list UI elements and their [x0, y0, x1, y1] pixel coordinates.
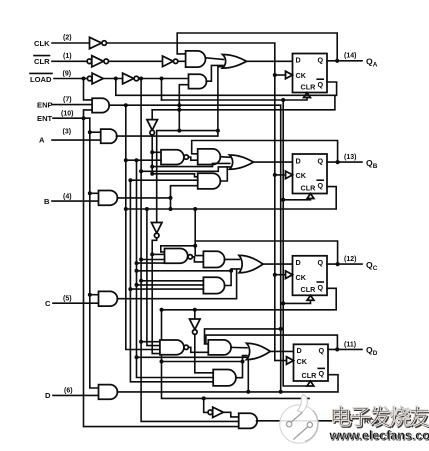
wire ENT rise to enable AND bottom input — [84, 110, 93, 118]
wire OR1 output to FF1 D — [246, 60, 293, 62]
node junction T chain end on line1 — [177, 129, 181, 133]
svg-text:(11): (11) — [344, 341, 356, 348]
wire A gate output to jog — [116, 67, 222, 136]
wire clear bus vertical — [283, 100, 310, 386]
svg-text:(2): (2) — [63, 35, 72, 42]
svg-text:C: C — [45, 299, 51, 308]
wire CLK input line — [52, 42, 89, 44]
wire RCO output line — [257, 420, 353, 422]
node ENT input label — [37, 110, 73, 123]
wire 3AND-B in1 line — [152, 174, 198, 177]
wire OR4 output to FF4 D — [270, 350, 294, 352]
node junction QB — [336, 160, 340, 164]
node junction x136.5 LC1 — [135, 269, 139, 273]
node junction x136.5 NAND-C — [135, 261, 139, 265]
svg-text:(12): (12) — [344, 256, 356, 263]
inverter U5 CLK buffer — [90, 37, 107, 48]
and-gate G5 stage B upper — [198, 149, 221, 165]
svg-text:CK: CK — [296, 171, 307, 180]
wire LD2 from x161.5 joining OR4 bottom feed — [162, 361, 243, 363]
flip-flop U1 QA — [286, 54, 328, 98]
wire FF1 Q output — [327, 60, 362, 62]
wire LD1 from bus x136.5 to OR4 lower back — [137, 356, 248, 358]
node junction LOAD x161.5 — [160, 77, 164, 81]
svg-text:Q: Q — [318, 56, 324, 65]
nand-gate G4 stage B — [161, 150, 188, 165]
wire NAND-B in2 from bus — [126, 159, 161, 161]
wire C input line — [53, 302, 98, 304]
wire D out jog up to OR D — [247, 359, 249, 392]
svg-text:CK: CK — [296, 273, 307, 282]
wire C gate output to OR C jog — [117, 270, 236, 299]
wire FF3 CLR hook — [283, 300, 310, 303]
wire QC-fb riser up to wrapB — [194, 209, 196, 241]
wire CLR inverter to AND A1 — [178, 60, 186, 62]
svg-text:CLR: CLR — [301, 83, 317, 92]
wire FF1 CLR hook — [162, 98, 308, 101]
node junction line A on T bus — [279, 327, 283, 331]
svg-text:D: D — [297, 346, 302, 355]
inverter U12 down inverter stage D chain — [190, 319, 201, 334]
wire G6 output jog up to OR2 bottom — [220, 167, 230, 181]
wire lower x161.5 from wrapC to bottom line — [162, 310, 310, 399]
wire QC feedback branch to NAND-C — [161, 246, 195, 252]
node junction LOAD x141 — [139, 77, 143, 81]
and-gate G2 stage A count gate — [189, 74, 207, 88]
wire QA routed line y109.8 — [152, 96, 335, 110]
node junction line1 on A-out jog — [216, 129, 220, 133]
node junction QC riser on wrapB — [193, 207, 197, 211]
node junction T drop joins D-out line — [279, 390, 283, 394]
node junction bus x146.9 top — [145, 207, 149, 211]
and-gate G20 stage D lower 3-input — [213, 370, 236, 386]
svg-text:A: A — [39, 136, 45, 145]
wire 3AND-B in2 from bus x136.5 — [130, 179, 197, 181]
inverter U11 down inverter stage C chain — [151, 223, 162, 238]
wire QA drop into inverter chain — [151, 110, 153, 120]
node junction bus x125.8 top — [124, 103, 128, 107]
svg-text:www.elecfans.com: www.elecfans.com — [328, 428, 429, 443]
svg-text:CLR: CLR — [302, 371, 318, 380]
node junction x136.5 LD1 — [135, 355, 139, 359]
node junction bus x130.4 start — [124, 158, 128, 162]
nand-gate G14 stage C 3-input — [165, 249, 193, 264]
inverter U9 LOAD second inverter — [123, 73, 139, 84]
wire NAND-C in1 stub — [152, 253, 164, 255]
wire QA feedback top line — [177, 33, 337, 61]
wire FF2 Q output — [327, 161, 362, 163]
wire 3AND-C in1 from bus x141.1 — [141, 280, 203, 282]
node junction x136.5 3AND-C — [135, 283, 139, 287]
wire FF4 Q output — [328, 348, 362, 350]
svg-text:D: D — [373, 350, 378, 357]
wire G19 output to OR4 — [231, 346, 247, 348]
node junction QC fb branch — [193, 244, 197, 248]
svg-text:(5): (5) — [63, 295, 72, 302]
wire G20 output jog up to OR4 bottom — [236, 356, 247, 378]
svg-text:CLR: CLR — [301, 183, 317, 192]
wire FF1 Qbar wraparound — [116, 79, 337, 96]
and-gate G16 stage C lower 3-input — [203, 277, 224, 293]
node junction ENT x83.5 — [82, 116, 86, 120]
flip-flop U2 QB — [286, 154, 328, 199]
wire QB feedback line — [192, 141, 338, 162]
node junction CLR bus top — [281, 98, 285, 102]
svg-text:C: C — [373, 265, 378, 272]
node junction x141.1 L2 — [139, 169, 143, 173]
wire C gate top input from x89.8 — [90, 294, 99, 296]
and-gate G1 stage A keep gate — [186, 51, 206, 67]
node junction chain NAND-B — [150, 150, 154, 154]
wire bus x146.9 from wrapB down to NAND-D — [147, 209, 160, 346]
svg-text:A: A — [373, 62, 378, 69]
wire LOAD long vertical x83.5 to RCO — [84, 118, 239, 426]
node junction CLR bus FF3 — [281, 301, 285, 305]
wire CK stub FF4 — [275, 360, 285, 362]
node junction B-out on riser — [169, 196, 173, 200]
wire stage D upper line A to T bus — [205, 329, 281, 344]
wire CLR line to second inverter — [109, 60, 164, 62]
wire 3AND-B in3 from wrapB riser — [171, 186, 198, 209]
node output RCO label — [349, 415, 380, 426]
and-gate G13 D load gate — [99, 385, 118, 400]
wire T bus riser to G2 bottom input — [179, 85, 188, 106]
and-gate G9 enable ENP/ENT — [92, 98, 109, 112]
svg-text:ENP: ENP — [37, 100, 53, 109]
wire QD feedback line — [206, 335, 338, 349]
wire OR3 output to FF3 D — [263, 263, 293, 265]
wire D input line — [53, 394, 98, 396]
wire NAND-D output step to G19 — [188, 347, 208, 352]
svg-text:CLR: CLR — [301, 285, 317, 294]
svg-text:LOAD: LOAD — [30, 75, 52, 84]
wire LOAD input line — [54, 78, 88, 80]
node output QC label — [344, 256, 378, 272]
wire NAND-B in1 stub — [152, 151, 161, 153]
node junction clock FF2 — [273, 173, 277, 177]
and-gate G12 C load gate — [99, 291, 118, 306]
wire ENT input line — [53, 117, 90, 119]
wire L2 from x141.1 joining OR2 bottom feed — [141, 167, 227, 171]
wire D gate output merged with QD-bar wrap line — [117, 375, 338, 392]
svg-text:B: B — [373, 163, 378, 170]
wire bus x125.8 from T line down to NAND-D — [126, 105, 160, 349]
svg-text:Q: Q — [318, 80, 324, 89]
and-gate G19 stage D upper — [208, 340, 231, 355]
svg-text:(10): (10) — [61, 110, 73, 117]
svg-text:CK: CK — [296, 71, 307, 80]
wire T bus lower segment to 3AND-B top input — [178, 105, 180, 130]
wire enable T output line — [109, 104, 281, 106]
node junction riser top — [202, 396, 206, 400]
svg-text:电子发烧友: 电子发烧友 — [330, 405, 429, 430]
wire L1 from chain to OR2 mid — [152, 163, 230, 166]
node B input label — [44, 193, 72, 206]
wire OR2 output to FF2 D — [253, 161, 293, 163]
wire FF2 CLR hook — [283, 199, 310, 200]
wire LOAD line to AND A2 top input — [139, 78, 189, 80]
node D input label — [45, 388, 73, 401]
wire B gate output to OR B jog — [117, 197, 170, 199]
svg-text:D: D — [296, 56, 301, 65]
wire CLK to clock bus corner — [107, 43, 275, 361]
wire A input line — [52, 139, 101, 141]
wire CK stub FF1 — [275, 74, 285, 76]
node junction T bus crossing QA line — [177, 108, 181, 112]
svg-text:Q: Q — [318, 283, 324, 292]
wire G1 output to OR1 — [206, 58, 224, 60]
wire CK stub FF2 — [275, 174, 285, 176]
watermark logo circle — [280, 395, 318, 443]
node LOAD input label — [30, 71, 71, 85]
node junction LC1 on jog — [229, 269, 233, 273]
wire LOAD between inverters — [103, 78, 122, 80]
wire T bus drop on right x280.7 — [280, 105, 282, 392]
node junction wrapB riser — [169, 207, 173, 211]
svg-text:B: B — [44, 197, 50, 206]
inverter U7 CLR second inverter — [163, 56, 178, 67]
node junction clock FF1 — [273, 73, 277, 77]
wire G2 output jog up to OR1 bottom — [206, 65, 223, 81]
wire NAND-B output step to G5 — [188, 157, 197, 160]
node junction x161.5 LD2 — [160, 360, 164, 364]
node junction x89.8 B stub — [88, 191, 92, 195]
or-gate G3 stage A — [223, 55, 247, 69]
flip-flop U3 QC — [286, 256, 328, 300]
wire NAND-D in1 stub — [141, 341, 160, 343]
wire wrapC drop to inverter chain — [194, 310, 196, 319]
inverter U8 LOAD first inverter — [87, 73, 103, 84]
node junction chain at NAND-C — [150, 252, 154, 256]
node junction QC — [336, 262, 340, 266]
wire G16 output jog up to OR3 bottom — [224, 269, 239, 286]
wire 3AND-C in3 from bus x130.4 — [130, 288, 203, 290]
wire A gate top input from x89.8 — [90, 131, 101, 133]
inverter U10 down inverter stage B chain — [147, 120, 158, 135]
svg-text:D: D — [45, 391, 51, 400]
wire ENT corner down long vertical x89.8 — [90, 118, 99, 388]
wire FF3 Q output — [327, 263, 362, 265]
wire LOAD vertical x161.5 down to bottom line — [161, 79, 163, 101]
wire bus x136.5 vertical — [137, 160, 214, 377]
and-gate G11 B load gate — [99, 191, 118, 206]
wire CLR input line — [52, 60, 87, 62]
wire FF2 Qbar wraparound — [126, 187, 336, 209]
nand-gate G18 stage D 4-input — [160, 340, 189, 355]
wire inverter chain to NAND-C and NAND-D — [152, 238, 160, 354]
node junction x141.1 NAND-C — [139, 258, 143, 262]
svg-text:ENT: ENT — [37, 114, 53, 123]
or-gate G7 stage B — [230, 155, 254, 169]
svg-text:Q: Q — [319, 346, 325, 355]
node junction LOAD x83.5 — [82, 77, 86, 81]
node junction x89.8 C stub — [88, 293, 92, 297]
node junction T bus — [177, 103, 181, 107]
node junction wrapC left end — [160, 308, 164, 312]
node output QA label — [344, 53, 378, 69]
node junction wrapB left end on bus x125.8 — [124, 207, 128, 211]
node junction QD — [335, 347, 339, 351]
node junction LOAD at x116 — [114, 77, 118, 81]
svg-text:Q: Q — [319, 369, 325, 378]
svg-text:CLK: CLK — [34, 39, 50, 48]
wire G15 output to OR3 — [224, 258, 239, 260]
node junction LD2 on jog — [241, 360, 245, 364]
wire 3AND-C in2 from bus x136.5 — [137, 284, 204, 286]
svg-text:CLR: CLR — [34, 57, 50, 66]
svg-text:(1): (1) — [63, 53, 72, 60]
svg-text:(4): (4) — [63, 193, 72, 200]
svg-text:D: D — [296, 156, 301, 165]
node output QB label — [344, 154, 378, 170]
and-gate G10 A load gate — [101, 129, 117, 143]
wire B gate top input from x89.8 — [90, 192, 99, 194]
svg-text:CK: CK — [297, 357, 308, 366]
node output QD label — [344, 341, 378, 357]
or-gate G17 stage C — [239, 255, 263, 272]
or-gate G21 stage D — [247, 343, 271, 359]
inverter U13 RCO buffer with input bubble — [208, 407, 223, 417]
flip-flop U4 QD — [287, 344, 329, 386]
and-gate G22 RCO — [239, 413, 258, 428]
wire bus x141.1 vertical from LOAD to NAND-D — [141, 79, 239, 422]
svg-text:(6): (6) — [64, 388, 73, 395]
wire inverter chain down to NAND-B input — [151, 135, 153, 174]
svg-text:Q: Q — [318, 156, 324, 165]
wire stage A AND2 drop line1 to stage C inverter chain — [157, 131, 218, 223]
node A input label — [39, 129, 71, 145]
and-gate G15 stage C upper — [203, 251, 224, 267]
node CLK input label — [34, 35, 72, 48]
svg-text:Q: Q — [318, 181, 324, 190]
svg-text:(3): (3) — [63, 129, 72, 136]
wire NAND-C in3 from bus x141.1 — [141, 259, 164, 261]
wire QC feedback line — [195, 241, 337, 264]
node junction wrapC riser — [193, 308, 197, 312]
node junction chain end 3AND-B — [150, 172, 154, 176]
wire NAND-C in4 from bus x136.5 — [137, 262, 165, 264]
node CLR input label — [34, 53, 72, 66]
svg-text:(7): (7) — [63, 97, 72, 104]
node ENP input label — [37, 97, 72, 110]
wire G5 output to OR2 — [220, 156, 230, 159]
wire LOAD drop to enable AND top input — [84, 79, 93, 100]
node junction CLR bus FF2 — [281, 198, 285, 202]
node junction x141.1 NAND-D — [139, 340, 143, 344]
node junction x141.1 3AND-C — [139, 279, 143, 283]
node junction x89.8 A stub — [88, 130, 92, 134]
node junction x130.4 3AND-C — [128, 287, 132, 291]
node C input label — [45, 295, 72, 308]
svg-text:(13): (13) — [344, 154, 356, 161]
node junction chain L1 — [150, 165, 154, 169]
wire bus x130.4 vertical — [130, 180, 213, 382]
node junction bus x136.5 start — [128, 178, 132, 182]
node junction bus x136.5 on NAND-B in2 line — [135, 158, 139, 162]
wire CK stub FF3 — [275, 274, 285, 276]
wire NAND-C output step to G15 — [192, 257, 203, 262]
wire inverter chain down to 3AND-D top input — [195, 334, 213, 373]
svg-text:D: D — [296, 258, 301, 267]
svg-text:(9): (9) — [63, 71, 72, 78]
wire B input line — [52, 200, 98, 202]
wire FF3 Qbar wraparound — [162, 288, 337, 310]
and-gate G6 stage B lower 3-input — [198, 173, 221, 189]
node junction clock FF3 — [273, 273, 277, 277]
inverter U6 CLR first inverter — [87, 56, 108, 67]
svg-text:Q: Q — [318, 258, 324, 267]
wire riser from bottom line to buffer input — [204, 398, 208, 412]
svg-text:(14): (14) — [344, 53, 356, 60]
wire LC1 from bus x136.5 joining OR3 bottom feed — [137, 270, 232, 272]
node junction D out jog — [246, 390, 250, 394]
wire buffer output step to RCO AND — [223, 412, 238, 417]
node junction QA — [335, 59, 339, 63]
wire ENP input line — [52, 104, 92, 106]
